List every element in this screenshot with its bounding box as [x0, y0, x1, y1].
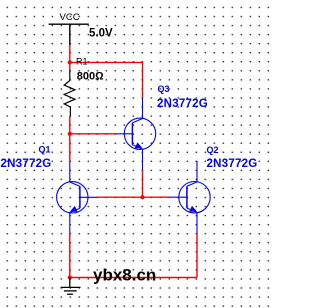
svg-text:2N3772G: 2N3772G — [1, 158, 52, 170]
wire node C to Q3 base — [70, 133, 116, 135]
power VCC symbol — [49, 24, 89, 45]
wire VCC to node A — [69, 45, 71, 62]
node D junction (ground node) — [68, 275, 72, 279]
node B junction — [140, 195, 144, 199]
svg-text:ybx8.cn: ybx8.cn — [93, 265, 156, 284]
svg-text:Q1: Q1 — [39, 145, 51, 155]
wire Q2 emitter down — [196, 234, 198, 278]
wire R1 to node C — [69, 117, 71, 134]
svg-text:2N3772G: 2N3772G — [157, 98, 208, 110]
wire node A to Q3 collector (horizontal) — [70, 61, 143, 63]
svg-text:2N3772G: 2N3772G — [207, 158, 258, 170]
transistor Q3 — [116, 98, 156, 171]
node C junction — [68, 132, 72, 136]
ground — [61, 278, 81, 295]
svg-text:Q3: Q3 — [158, 84, 170, 94]
wire down to Q3 collector pin — [142, 62, 144, 97]
wire Q3 emitter to node B — [142, 170, 144, 197]
wire Q1 emitter down — [69, 234, 71, 278]
wire node C to Q1 collector — [69, 134, 71, 161]
transistor Q2 — [170, 161, 210, 234]
svg-text:5.0V: 5.0V — [89, 28, 113, 40]
svg-text:Q2: Q2 — [207, 145, 219, 155]
resistor R1 — [64, 70, 75, 116]
svg-text:VCC: VCC — [60, 12, 80, 23]
transistor Q1 (mirrored, base on right) — [57, 161, 97, 234]
wire Q1 base to Q2 base — [97, 196, 170, 198]
svg-text:R1: R1 — [76, 56, 88, 66]
svg-text:800Ω: 800Ω — [77, 71, 104, 83]
wire node A to resistor R1 — [69, 62, 71, 70]
wire bottom horizontal to Q2 emitter — [70, 277, 197, 279]
node A junction — [68, 60, 72, 64]
